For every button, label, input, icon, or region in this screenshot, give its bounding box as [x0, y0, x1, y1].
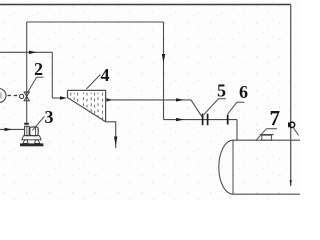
pump 3 inlet flange — [24, 123, 29, 125]
tank 7 left head — [219, 140, 233, 194]
flange 6 — [227, 115, 229, 125]
arrow into separator — [60, 96, 67, 99]
wire separator outlet — [106, 99, 191, 101]
tank 7 nozzle — [262, 135, 272, 140]
tank 7 shell top — [233, 139, 300, 141]
wire feed drop to separator — [51, 52, 53, 98]
pump 3 motor rib — [35, 127, 37, 136]
wire header drop — [163, 22, 165, 120]
valve 2 actuator circle — [20, 94, 24, 98]
arrow on feed pipe — [176, 118, 184, 121]
wire outlet slant join — [191, 100, 203, 118]
svg-text:5: 5 — [217, 81, 226, 101]
separator 4 body — [68, 90, 106, 121]
arrow down on drop — [162, 54, 165, 63]
arrow dip pipe tip — [290, 180, 292, 186]
leader for label 4 — [86, 75, 100, 89]
wire riser from pump through valve 2 — [26, 22, 28, 123]
wire tank inlet drop — [236, 120, 238, 141]
separator 4 media dashes — [71, 93, 103, 119]
arrow drain down — [114, 137, 117, 147]
pump 3 base plate — [20, 143, 43, 146]
wire left feed line — [0, 51, 52, 53]
svg-text:4: 4 — [101, 65, 110, 85]
valve 2 body — [24, 92, 29, 101]
wire feed pipe to tank — [164, 119, 238, 121]
arrow separator outlet — [107, 98, 114, 101]
arrow on left feed — [29, 51, 37, 54]
wire right downcomer to tank — [290, 5, 292, 187]
drain valve body — [288, 122, 291, 128]
pump 3 foot right — [35, 140, 40, 144]
wire separator drain jog — [106, 122, 116, 148]
pump 3 casing — [25, 126, 30, 135]
tank 7 shell bottom — [233, 193, 300, 195]
motor inner mark — [0, 93, 2, 99]
pump 3 motor — [30, 127, 38, 136]
drain valve bonnet circle — [289, 122, 294, 127]
leader for label 6 — [228, 102, 245, 114]
drain valve handle slant — [294, 128, 299, 135]
leader for label 7 — [256, 129, 277, 141]
flange pair 5 — [203, 114, 208, 126]
wire pump discharge header — [27, 21, 164, 23]
leader for label 5 — [204, 99, 226, 115]
svg-text:6: 6 — [239, 82, 248, 102]
svg-text:3: 3 — [45, 107, 54, 127]
leader for label 3 — [32, 116, 44, 130]
wire top recycle line — [0, 4, 291, 6]
leader for label 2 — [27, 77, 43, 93]
pump 3 foot left — [23, 140, 28, 144]
svg-text:7: 7 — [270, 106, 281, 130]
arrow on suction — [5, 128, 13, 131]
dashed actuator shaft — [8, 95, 20, 97]
tank 7 left seam — [232, 140, 234, 194]
pump 3 casing rib — [26, 126, 28, 135]
tank 7 nozzle lip — [260, 134, 274, 136]
motor circle (left edge) — [0, 89, 6, 103]
wire feed stub into separator — [52, 97, 60, 99]
pump 3 support — [22, 136, 41, 140]
svg-text:2: 2 — [34, 59, 43, 79]
wire pump suction — [0, 128, 25, 130]
arrow on outlet line — [176, 98, 184, 101]
